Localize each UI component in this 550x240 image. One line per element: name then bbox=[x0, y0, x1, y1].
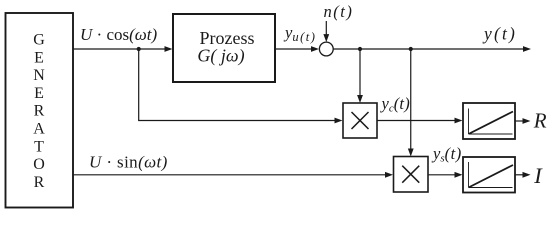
svg-text:ys(t): ys(t) bbox=[431, 144, 462, 165]
svg-text:R: R bbox=[533, 109, 547, 133]
wire: branch down into multiplier M2 (crosses y_c wire) bbox=[410, 49, 412, 150]
summing junction bbox=[319, 42, 333, 56]
svg-text:yc(t): yc(t) bbox=[380, 94, 410, 115]
svg-text:T: T bbox=[34, 138, 44, 155]
svg-text:G( jω): G( jω) bbox=[197, 46, 244, 67]
multiplier M2 bbox=[394, 157, 429, 193]
svg-text:U · cos(ωt): U · cos(ωt) bbox=[80, 25, 157, 44]
wire: branch down into multiplier M1 bbox=[359, 49, 361, 97]
wire: cos branch down and right to multiplier M1 bbox=[139, 49, 335, 121]
svg-text:N: N bbox=[33, 67, 45, 84]
wire: I output arrow bbox=[515, 174, 524, 176]
wire: U·cos(ωt) from generator to process bbox=[73, 48, 165, 50]
node: junction dot to M1 bbox=[358, 47, 362, 51]
lowpass block I (axes with ramp) bbox=[463, 157, 515, 193]
wire: y_c(t) from M1 to R box bbox=[377, 120, 456, 122]
wire: y_s(t) from M2 to I box bbox=[428, 174, 456, 176]
svg-text:y(t): y(t) bbox=[482, 24, 517, 44]
svg-text:G: G bbox=[33, 32, 45, 49]
svg-text:R: R bbox=[34, 103, 45, 120]
generator block bbox=[6, 13, 74, 208]
wire: n(t) arrow into summing junction bbox=[325, 21, 327, 36]
svg-text:U · sin(ωt): U · sin(ωt) bbox=[89, 152, 168, 171]
multiplier M1 bbox=[343, 103, 377, 138]
wire: y(t) output line bbox=[333, 48, 524, 50]
svg-text:A: A bbox=[33, 121, 45, 138]
svg-text:E: E bbox=[34, 49, 44, 66]
generator label (vertical GENERATOR) bbox=[33, 32, 45, 191]
svg-text:E: E bbox=[34, 85, 44, 102]
svg-text:I: I bbox=[533, 163, 543, 188]
lowpass block R (axes with ramp) bbox=[463, 103, 515, 139]
svg-text:R: R bbox=[34, 174, 45, 191]
node: junction dot on cos wire bbox=[137, 47, 141, 51]
svg-text:O: O bbox=[33, 156, 45, 173]
node: junction dot to M2 bbox=[409, 47, 413, 51]
process block U1 bbox=[173, 14, 275, 82]
wire: U·sin(ωt) from generator to multiplier M2 bbox=[73, 174, 386, 176]
wire: process output y_u(t) to summing junction bbox=[275, 48, 312, 50]
svg-text:n(t): n(t) bbox=[324, 2, 354, 21]
wire: R output arrow bbox=[515, 120, 524, 122]
